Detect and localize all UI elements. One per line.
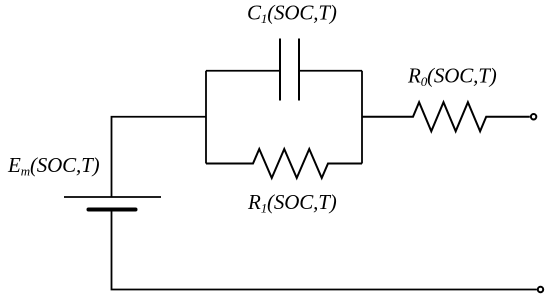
svg-text:Em(SOC,T): Em(SOC,T) — [7, 153, 100, 179]
svg-text:R0(SOC,T): R0(SOC,T) — [407, 64, 497, 90]
svg-text:R1(SOC,T): R1(SOC,T) — [247, 190, 337, 216]
svg-text:C1(SOC,T): C1(SOC,T) — [247, 1, 337, 27]
